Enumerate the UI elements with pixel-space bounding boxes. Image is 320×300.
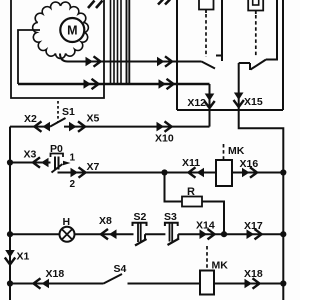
svg-text:X15: X15: [244, 96, 263, 108]
svg-text:MK: MK: [212, 260, 229, 272]
svg-text:H: H: [63, 216, 71, 228]
svg-text:MK: MK: [228, 145, 245, 157]
svg-text:R: R: [187, 186, 195, 198]
svg-text:S2: S2: [134, 211, 147, 223]
svg-text:X10: X10: [155, 133, 174, 145]
svg-text:M: M: [67, 24, 77, 38]
svg-text:X2: X2: [24, 113, 37, 125]
svg-text:S3: S3: [164, 211, 177, 223]
svg-text:X17: X17: [244, 220, 263, 232]
svg-text:X5: X5: [87, 113, 100, 125]
svg-text:1: 1: [70, 153, 76, 164]
svg-text:X18: X18: [244, 268, 263, 280]
svg-text:X16: X16: [240, 158, 259, 170]
svg-text:X1: X1: [17, 251, 30, 263]
svg-text:X11: X11: [182, 157, 200, 169]
svg-text:X14: X14: [196, 220, 215, 232]
svg-text:X12: X12: [187, 97, 206, 109]
svg-text:2: 2: [70, 179, 76, 190]
svg-text:X18: X18: [46, 268, 65, 280]
svg-text:S1: S1: [62, 106, 75, 118]
svg-text:S4: S4: [114, 263, 127, 275]
svg-text:X3: X3: [24, 149, 37, 161]
svg-text:X7: X7: [87, 161, 100, 173]
svg-text:X8: X8: [99, 215, 112, 227]
